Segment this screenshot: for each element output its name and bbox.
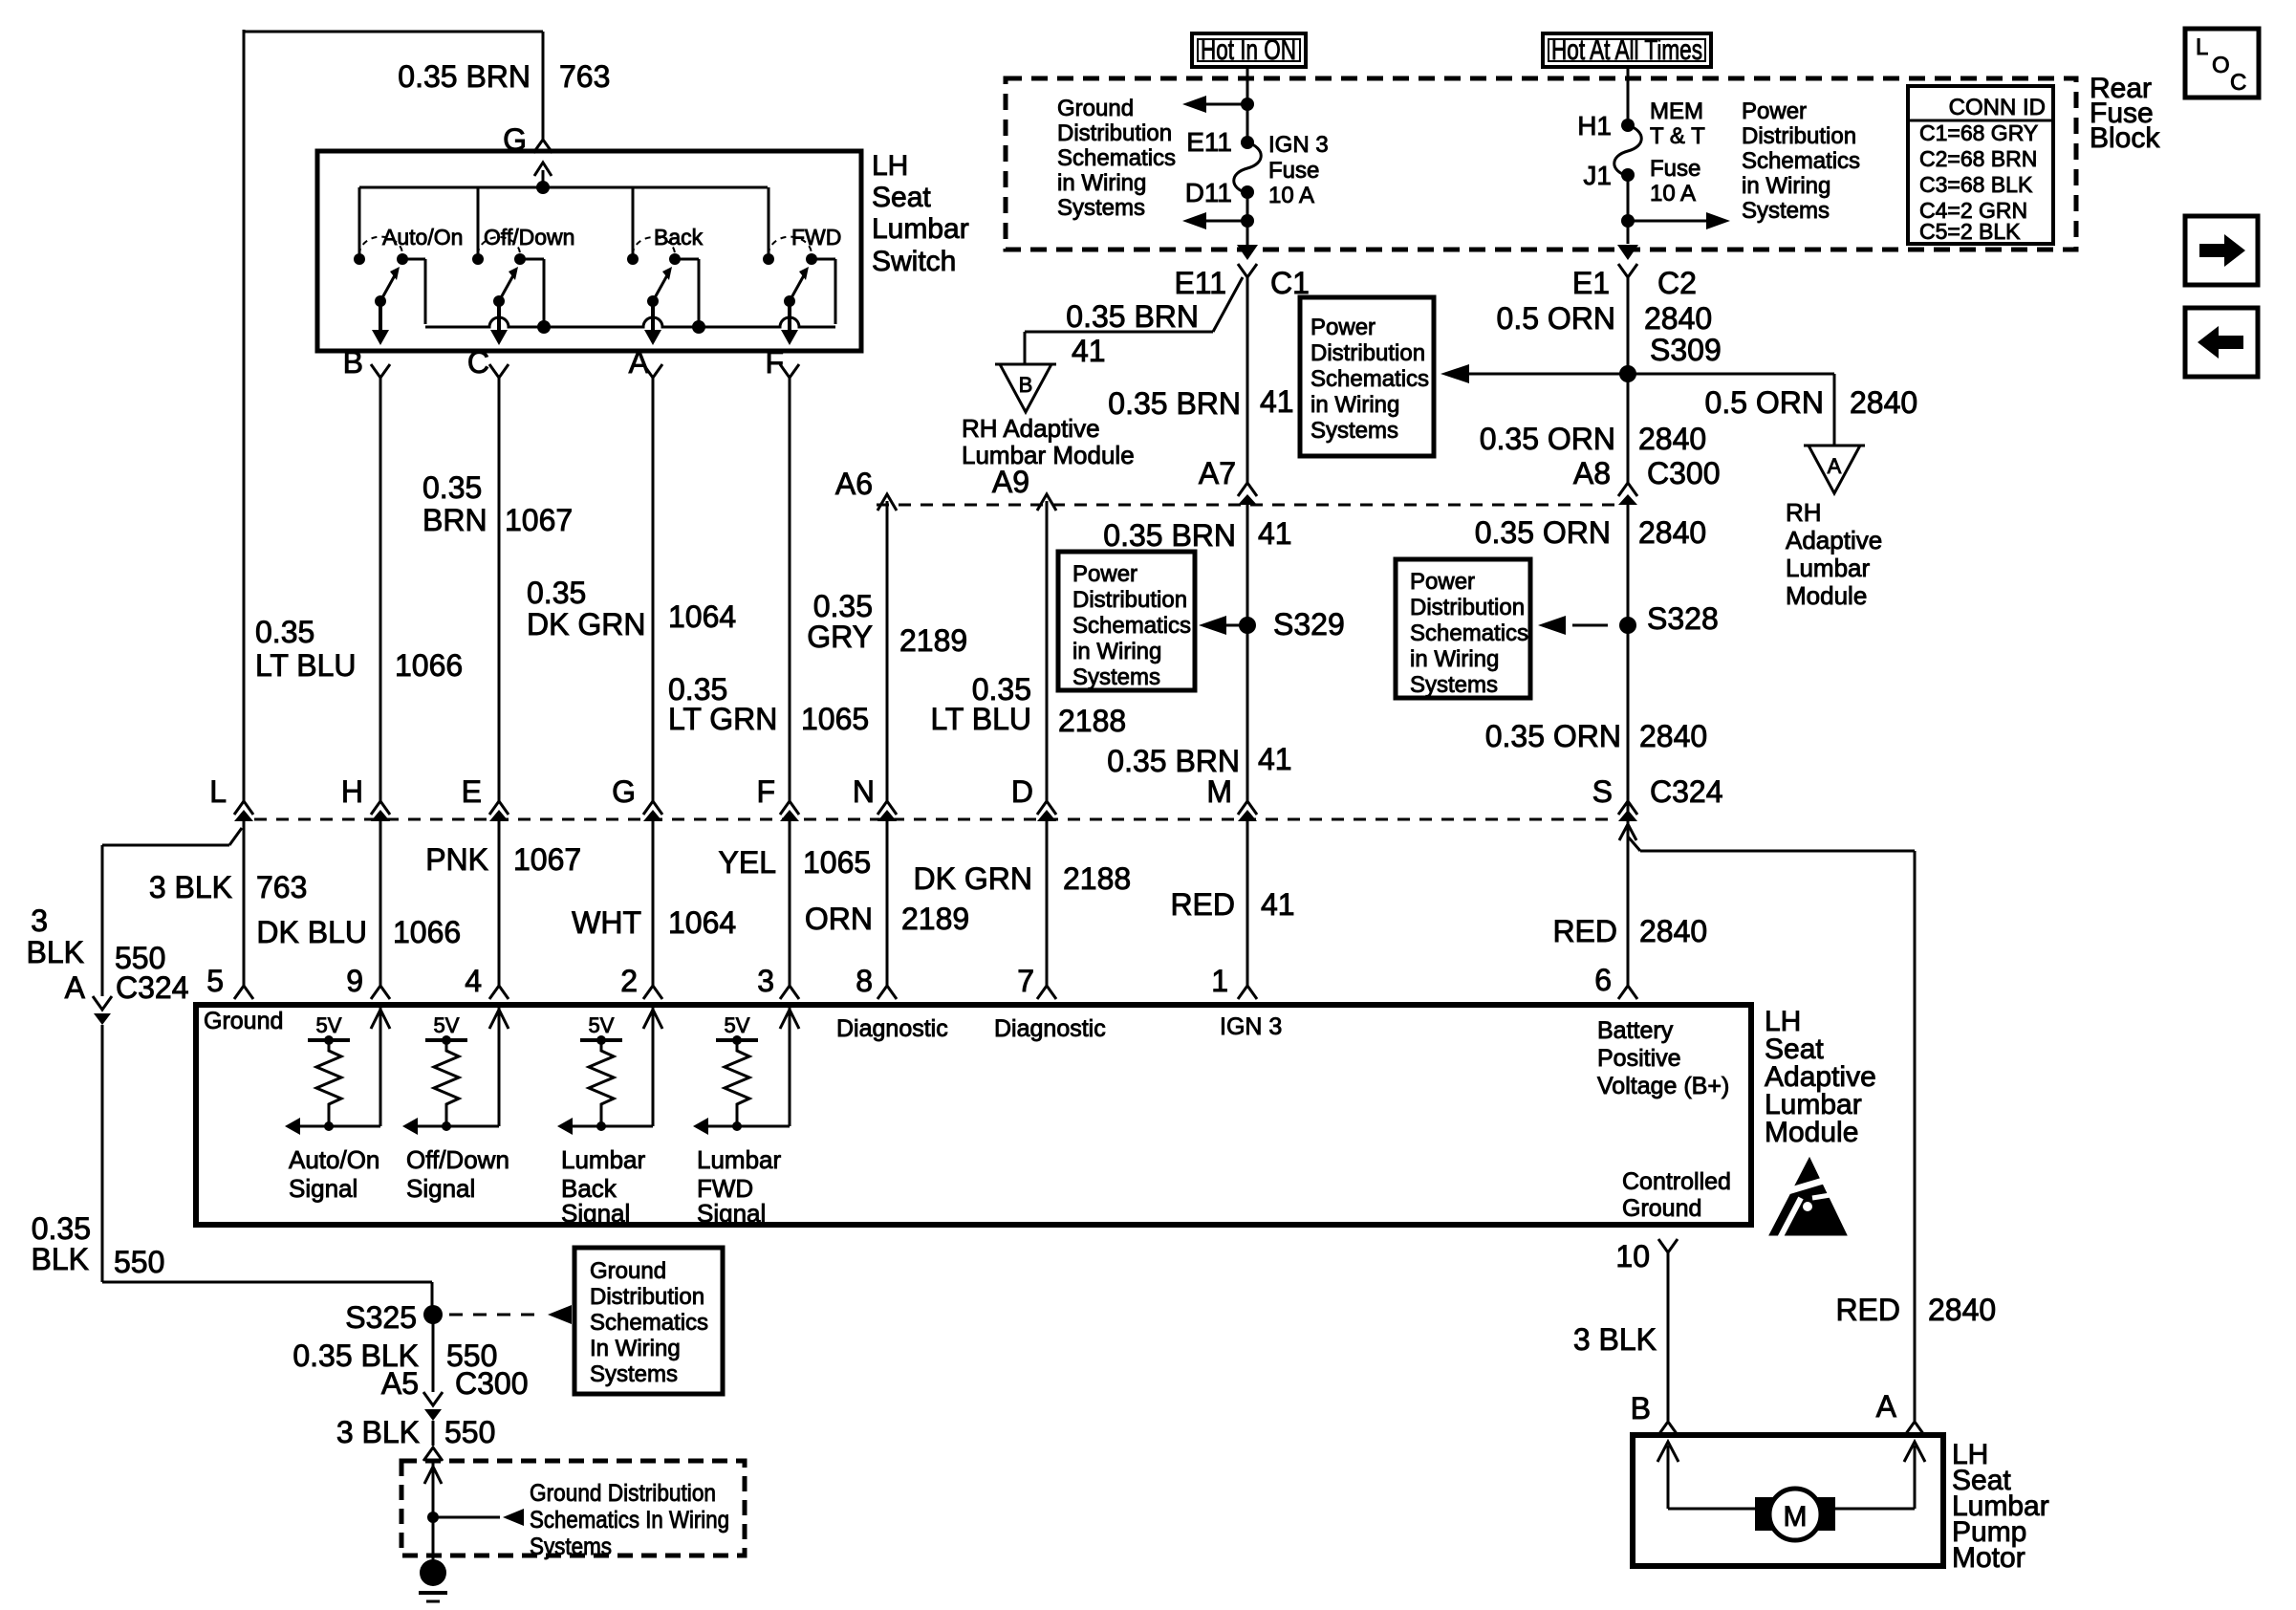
label Diagnostic (pin 8) (836, 1015, 948, 1042)
connector A8 C300 (1573, 456, 1721, 505)
wire 0.35 LT BLU 2188 (A9 to D) (1046, 501, 1049, 801)
fuse IGN 3 Fuse 10 A (1185, 127, 1329, 208)
wire 3 BLK (pin 10 to motor B) (1667, 1252, 1670, 1421)
label 3 BLK 550 (336, 1415, 496, 1449)
wire 3 BLK 763 (L to pin 5) (234, 821, 253, 999)
svg-text:D: D (1011, 774, 1033, 809)
svg-text:550: 550 (444, 1415, 495, 1449)
label 0.35 LT GRN 1065 (668, 672, 869, 736)
svg-text:LT BLU: LT BLU (930, 702, 1031, 736)
wire G internal feed arrow (534, 163, 552, 194)
svg-text:Auto/On: Auto/On (382, 225, 463, 250)
svg-text:C1=68 GRY: C1=68 GRY (1919, 120, 2038, 145)
svg-text:A5: A5 (381, 1366, 419, 1401)
svg-text:A: A (1828, 454, 1842, 478)
svg-text:Systems: Systems (530, 1534, 612, 1560)
switch Auto/On (354, 187, 463, 345)
fuse MEM T&T Fuse 10 A (1577, 98, 1705, 207)
svg-text:BLK: BLK (32, 1242, 89, 1276)
svg-text:Power: Power (1410, 569, 1475, 595)
svg-text:A: A (1876, 1389, 1897, 1424)
svg-text:Distribution: Distribution (1310, 340, 1425, 366)
symbol LOC box (2185, 29, 2259, 98)
box Power Distribution Schematics (S309) (1300, 297, 1434, 456)
svg-text:1064: 1064 (668, 599, 736, 634)
label ORN 2189 (805, 902, 969, 936)
svg-text:N: N (853, 774, 875, 809)
label pin 2 (620, 964, 638, 998)
label 0.35 ORN 2840 (above C300) (1480, 422, 1706, 456)
connector pin L at C324 line (209, 774, 253, 821)
svg-text:Off/Down: Off/Down (484, 225, 574, 250)
module pin A9 (992, 465, 1056, 511)
wire S to pin 6 (1618, 821, 1637, 999)
svg-text:A6: A6 (835, 467, 873, 501)
module pin A6 (835, 467, 897, 511)
svg-text:Fuse: Fuse (1268, 158, 1319, 184)
wire 0.35 BRN 41 (C1 to module pin 1) (1246, 277, 1249, 801)
wire motor internal loop (1657, 1442, 1925, 1509)
svg-text:0.35 ORN: 0.35 ORN (1480, 422, 1615, 456)
svg-text:2840: 2840 (1638, 422, 1706, 456)
svg-text:Motor: Motor (1952, 1542, 2025, 1574)
switch FWD (763, 187, 841, 345)
svg-text:A8: A8 (1573, 456, 1611, 490)
svg-text:BLK: BLK (27, 935, 84, 969)
svg-text:DK GRN: DK GRN (527, 607, 645, 642)
svg-text:0.35 BRN: 0.35 BRN (1103, 518, 1236, 553)
label 0.35 GRY 2189 (807, 589, 967, 658)
box Ground Distribution Schematics (S325) (574, 1248, 723, 1394)
svg-text:Signal: Signal (406, 1174, 475, 1203)
svg-text:Signal: Signal (289, 1174, 357, 1203)
svg-text:1066: 1066 (393, 915, 461, 949)
svg-text:IGN 3: IGN 3 (1268, 132, 1329, 158)
connector pin A of switch (629, 345, 662, 380)
svg-text:10: 10 (1615, 1239, 1650, 1273)
label 0.35 LT BLU 1066 (255, 615, 463, 683)
label Hot In ON (1192, 33, 1306, 67)
svg-text:Schematics: Schematics (1742, 148, 1860, 174)
connector A5 C300 (381, 1366, 529, 1421)
svg-text:Schematics In Wiring: Schematics In Wiring (530, 1507, 729, 1534)
label 0.35 BRN 1067 (422, 470, 573, 537)
connector A7 (1199, 456, 1257, 505)
wire WHT 1064 (A to G) (652, 377, 655, 801)
wire fuse output to C2 (1617, 175, 1730, 260)
svg-text:Lumbar: Lumbar (872, 213, 969, 245)
svg-text:Controlled: Controlled (1622, 1168, 1731, 1195)
label 3 BLK (motor) (1573, 1322, 1657, 1357)
svg-text:IGN 3: IGN 3 (1220, 1013, 1282, 1040)
svg-text:Schematics: Schematics (1310, 366, 1429, 392)
svg-text:RH Adaptive: RH Adaptive (962, 414, 1100, 443)
label pin 7 (1017, 964, 1034, 998)
svg-text:0.5 ORN: 0.5 ORN (1497, 301, 1615, 336)
wire 0.35 BLK 550 (S325 to A5) (432, 1323, 435, 1392)
svg-text:In Wiring: In Wiring (590, 1336, 681, 1361)
svg-text:E: E (462, 774, 482, 809)
svg-text:E11: E11 (1186, 127, 1232, 157)
svg-text:Power: Power (1310, 315, 1375, 340)
svg-text:Lumbar: Lumbar (561, 1145, 645, 1174)
svg-text:0.35: 0.35 (32, 1211, 91, 1246)
wire 0.35 BLK 550 (to S325) (102, 1025, 432, 1306)
label 0.35 ORN 2840 (below C300) (1475, 515, 1706, 550)
svg-text:B: B (1019, 373, 1033, 397)
wire F to pin 3 (780, 821, 799, 999)
svg-text:0.35: 0.35 (527, 576, 586, 610)
connector pin B of switch (343, 345, 390, 380)
svg-text:WHT: WHT (572, 905, 641, 940)
svg-text:1064: 1064 (668, 905, 736, 940)
svg-text:4: 4 (465, 964, 482, 998)
svg-text:Systems: Systems (590, 1361, 678, 1387)
label Controlled Ground (pin 10) (1622, 1168, 1731, 1222)
svg-text:2840: 2840 (1850, 385, 1917, 420)
svg-text:S: S (1592, 774, 1613, 809)
connector motor pin B (1631, 1391, 1678, 1435)
component box LH Seat Lumbar Switch (317, 150, 969, 351)
connector pin C of switch (467, 345, 509, 380)
wire H to pin 9 (371, 821, 390, 999)
module connector dashed line C2xx (254, 818, 1617, 821)
svg-text:Signal: Signal (561, 1199, 630, 1228)
label Diagnostic (pin 7) (994, 1015, 1106, 1042)
svg-text:Diagnostic: Diagnostic (994, 1015, 1106, 1042)
connector pin F at C324 line (756, 774, 799, 821)
svg-text:A: A (65, 970, 86, 1005)
resistor 5V pull-up at pin 398 (285, 1008, 390, 1203)
wire DK BLU 1066 (B to H) (379, 377, 382, 801)
connector pin E at C324 line (462, 774, 509, 821)
label 0.35 BRN 763 (398, 59, 610, 94)
svg-text:RED: RED (1835, 1293, 1900, 1327)
svg-text:2: 2 (620, 964, 638, 998)
svg-text:PNK: PNK (425, 842, 488, 877)
svg-text:763: 763 (256, 870, 307, 904)
connector A C324 (ground lead) (27, 903, 189, 1025)
box Power Distribution Schematics (S329) (1058, 552, 1195, 690)
svg-text:Positive: Positive (1597, 1045, 1681, 1072)
svg-text:LT GRN: LT GRN (668, 702, 777, 736)
svg-text:Distribution: Distribution (1072, 587, 1187, 613)
svg-text:41: 41 (1072, 334, 1106, 368)
svg-text:1065: 1065 (801, 702, 869, 736)
wire internal lower bus with hops (425, 317, 835, 334)
svg-text:1065: 1065 (803, 845, 871, 880)
svg-text:1067: 1067 (513, 842, 581, 877)
box Ground Distribution Schematics In Wiring Systems (dashed) (401, 1461, 745, 1560)
svg-text:41: 41 (1260, 384, 1294, 419)
svg-text:7: 7 (1017, 964, 1034, 998)
svg-text:Distribution: Distribution (1057, 120, 1172, 146)
splice S328 (1538, 601, 1719, 636)
svg-text:E11: E11 (1174, 266, 1226, 300)
svg-text:LT BLU: LT BLU (255, 648, 357, 683)
label Power Distribution Schematics in Wiring Systems (fuse block) (1742, 98, 1860, 224)
svg-text:3 BLK: 3 BLK (149, 870, 232, 904)
wire RED 2840 branch to pump motor (1628, 837, 1915, 1421)
label 0.35 DK GRN 1064 (527, 576, 736, 642)
svg-text:F: F (765, 345, 784, 380)
connector pin F of switch (765, 345, 799, 380)
svg-text:8: 8 (856, 964, 873, 998)
svg-text:C2: C2 (1657, 266, 1697, 300)
splice S329 (1199, 607, 1345, 642)
label Ground Distribution Schematics in Wiring Systems (fuse block) (1057, 96, 1176, 221)
connector motor pin A (1876, 1389, 1924, 1435)
label C324 (at pin S) (1650, 774, 1723, 809)
switch Back (627, 187, 704, 345)
svg-text:Power: Power (1072, 561, 1137, 587)
svg-text:Schematics: Schematics (1072, 613, 1191, 639)
svg-text:H: H (341, 774, 363, 809)
component box Rear Fuse Block (dashed) (1006, 73, 2160, 250)
svg-text:RED: RED (1170, 887, 1235, 922)
svg-text:Module: Module (1765, 1117, 1858, 1148)
wire 0.5 ORN 2840 branch to RH module (1628, 374, 1834, 446)
splice S309 (1440, 333, 1722, 383)
svg-text:T & T: T & T (1650, 123, 1705, 149)
switch Off/Down (472, 187, 574, 345)
wire PNK 1067 (C to E) (498, 377, 501, 801)
wire 0.35 BRN 41 branch to RH Adaptive Lumbar Module (1025, 277, 1243, 364)
label 0.35 BRN 41 (above A7) (1108, 384, 1293, 421)
svg-text:MEM: MEM (1650, 98, 1703, 124)
svg-text:C324: C324 (1650, 774, 1723, 809)
svg-text:Adaptive: Adaptive (1786, 526, 1882, 555)
svg-text:0.5 ORN: 0.5 ORN (1705, 385, 1824, 420)
svg-text:2840: 2840 (1639, 719, 1707, 753)
svg-text:C: C (2230, 70, 2246, 96)
svg-text:F: F (756, 774, 775, 809)
wire D to pin 7 (1037, 821, 1056, 999)
svg-text:3 BLK: 3 BLK (1573, 1322, 1657, 1357)
svg-text:Lumbar Module: Lumbar Module (962, 441, 1135, 469)
svg-text:41: 41 (1261, 887, 1295, 922)
svg-text:C3=68 BLK: C3=68 BLK (1919, 172, 2033, 197)
svg-text:1: 1 (1211, 964, 1228, 998)
svg-text:41: 41 (1258, 742, 1292, 776)
svg-text:A9: A9 (992, 465, 1029, 499)
svg-text:10 A: 10 A (1650, 181, 1696, 207)
resistor 5V pull-up at pin 683 (557, 1008, 662, 1228)
ground G305 (419, 1559, 447, 1601)
svg-text:9: 9 (346, 964, 363, 998)
connector pin N at C324 line (853, 774, 897, 821)
svg-text:Systems: Systems (1410, 672, 1498, 698)
svg-text:H1: H1 (1577, 111, 1612, 141)
svg-text:0.35: 0.35 (422, 470, 482, 505)
label IGN 3 (pin 1) (1220, 1013, 1282, 1040)
wire YEL 1065 (F to F) (789, 377, 791, 801)
svg-text:M: M (1784, 1501, 1808, 1533)
svg-text:GRY: GRY (807, 620, 873, 654)
svg-text:5: 5 (206, 964, 224, 998)
svg-text:in Wiring: in Wiring (1057, 170, 1146, 196)
svg-text:Block: Block (2090, 122, 2160, 154)
svg-text:E1: E1 (1572, 266, 1610, 300)
svg-text:A7: A7 (1199, 456, 1236, 490)
label pin 1 (1211, 964, 1228, 998)
connector E11 C1 (1174, 264, 1309, 300)
label pin 3 (757, 964, 774, 998)
label pin 4 (465, 964, 482, 998)
svg-text:0.35: 0.35 (255, 615, 314, 649)
label pin 5 (206, 964, 224, 998)
svg-text:6: 6 (1594, 963, 1612, 997)
svg-text:DK BLU: DK BLU (256, 915, 367, 949)
svg-text:Off/Down: Off/Down (406, 1145, 509, 1174)
off-page reference B (RH Adaptive Lumbar Module) (962, 364, 1135, 469)
svg-text:C2=68 BRN: C2=68 BRN (1919, 146, 2037, 171)
svg-text:B: B (343, 345, 363, 380)
svg-text:A: A (629, 345, 650, 380)
svg-text:Schematics: Schematics (1410, 620, 1528, 646)
svg-text:Ground: Ground (1622, 1195, 1701, 1222)
motor M1 (pump motor) (1755, 1489, 1835, 1540)
wire Hot In ON feed (1241, 67, 1254, 140)
svg-text:Systems: Systems (1072, 664, 1160, 690)
svg-text:J1: J1 (1583, 161, 1612, 190)
svg-text:G: G (612, 774, 636, 809)
connector pin M at C324 line (1206, 774, 1257, 821)
svg-text:0.35 BRN: 0.35 BRN (1107, 744, 1240, 778)
svg-text:C300: C300 (455, 1366, 529, 1401)
connector pin H at C324 line (341, 774, 390, 821)
svg-text:Lumbar: Lumbar (1786, 554, 1870, 582)
component box LH Seat Lumbar Pump Motor (1633, 1435, 2049, 1574)
wire E to pin 4 (489, 821, 509, 999)
svg-text:O: O (2212, 53, 2230, 78)
svg-text:L: L (209, 774, 227, 809)
svg-text:5V: 5V (434, 1013, 460, 1037)
svg-text:2189: 2189 (899, 623, 967, 658)
svg-text:5V: 5V (725, 1013, 750, 1037)
svg-text:1067: 1067 (505, 503, 573, 537)
symbol page-forward arrow box (2185, 216, 2258, 285)
arrow to ground distribution (upper) (1182, 96, 1247, 113)
svg-text:CONN ID: CONN ID (1949, 95, 2046, 120)
svg-text:S328: S328 (1647, 601, 1719, 636)
svg-text:Lumbar: Lumbar (697, 1145, 781, 1174)
label 0.5 ORN 2840 (top) (1497, 301, 1713, 336)
label RED 41 (1170, 887, 1294, 922)
resistor 5V pull-up at pin 826 (693, 1008, 799, 1228)
svg-text:Diagnostic: Diagnostic (836, 1015, 948, 1042)
svg-text:RH: RH (1786, 498, 1822, 527)
svg-text:Schematics: Schematics (1057, 145, 1176, 171)
svg-text:0.35: 0.35 (813, 589, 873, 623)
svg-text:3 BLK: 3 BLK (336, 1415, 420, 1449)
component box LH Seat Adaptive Lumbar Module (196, 1005, 1876, 1225)
svg-text:Seat: Seat (872, 182, 931, 213)
wire N to pin 8 (877, 821, 897, 999)
label 0.35 BRN 41 (above M) (1107, 742, 1291, 778)
svg-text:Hot In ON: Hot In ON (1201, 34, 1296, 66)
splice S325 (345, 1300, 572, 1335)
svg-text:Distribution: Distribution (1410, 595, 1525, 620)
svg-text:FWD: FWD (791, 225, 841, 250)
label 0.35 BRN 41 (below A7) (1103, 516, 1291, 553)
svg-text:0.35 BRN: 0.35 BRN (1066, 299, 1199, 334)
connector pin S at C324 line (1592, 774, 1637, 821)
svg-text:Battery: Battery (1597, 1017, 1674, 1044)
svg-text:Signal: Signal (697, 1199, 766, 1228)
svg-text:BRN: BRN (422, 503, 487, 537)
svg-text:Ground: Ground (204, 1008, 283, 1034)
svg-text:3: 3 (757, 964, 774, 998)
connector pin G of switch (503, 122, 552, 157)
svg-text:Switch: Switch (872, 246, 956, 277)
svg-text:in Wiring: in Wiring (1410, 646, 1499, 672)
wire 0.5 ORN 2840 (C2 to module pin 6) (1627, 277, 1630, 837)
connector pin 10 (1615, 1239, 1678, 1273)
svg-text:Voltage (B+): Voltage (B+) (1597, 1073, 1729, 1099)
connector pin D at C324 line (1011, 774, 1056, 821)
svg-text:2840: 2840 (1639, 914, 1707, 948)
wire fuse output to C1 (1182, 192, 1258, 260)
connector pin G at C324 line (612, 774, 662, 821)
svg-text:LH: LH (872, 150, 908, 182)
svg-text:41: 41 (1258, 516, 1292, 551)
svg-text:L: L (2196, 34, 2208, 60)
svg-text:C: C (467, 345, 489, 380)
label Battery Positive Voltage (pin 6) (1597, 1017, 1729, 1099)
svg-text:0.35 BRN: 0.35 BRN (1108, 386, 1241, 421)
label pin 9 (346, 964, 363, 998)
module boundary dashed line (upper) (877, 504, 1616, 507)
label Ground (module pin 5) (204, 1008, 283, 1034)
svg-text:RED: RED (1552, 914, 1617, 948)
svg-text:Auto/On: Auto/On (289, 1145, 379, 1174)
svg-text:YEL: YEL (719, 845, 776, 880)
label 0.35 LT BLU 2188 (930, 672, 1126, 738)
label Hot At All Times (1543, 33, 1711, 67)
svg-text:2840: 2840 (1644, 301, 1712, 336)
symbol ESD sensitive device (1769, 1158, 1849, 1238)
svg-text:2188: 2188 (1058, 704, 1126, 738)
svg-text:Ground: Ground (1057, 96, 1134, 121)
svg-text:1066: 1066 (395, 648, 463, 683)
svg-text:Systems: Systems (1742, 198, 1830, 224)
label pin 8 (856, 964, 873, 998)
label 0.5 ORN 2840 (branch) (1705, 385, 1918, 420)
label DK GRN 2188 (914, 861, 1132, 896)
svg-text:in Wiring: in Wiring (1072, 639, 1161, 664)
wire 0.35 GRY 2189 (A6 to N) (886, 501, 889, 801)
svg-text:Systems: Systems (1057, 195, 1145, 221)
svg-text:in Wiring: in Wiring (1310, 392, 1399, 418)
label 0.35 BLK 550 (A5) (292, 1338, 497, 1373)
svg-text:5V: 5V (589, 1013, 615, 1037)
svg-text:Power: Power (1742, 98, 1807, 124)
wire branch to C324 ground (jog) (102, 828, 242, 996)
svg-text:C5=2 BLK: C5=2 BLK (1919, 219, 2021, 244)
svg-text:2188: 2188 (1063, 861, 1131, 896)
wire 3 BLK 550 (A5 to ground) (423, 1421, 443, 1561)
symbol page-back arrow box (2185, 308, 2258, 377)
svg-text:Schematics: Schematics (590, 1310, 708, 1336)
label 0.35 BRN 41 (branch) (1066, 299, 1199, 368)
off-page reference A (RH Adaptive Lumbar Module) (1786, 446, 1882, 610)
svg-text:B: B (1631, 1391, 1651, 1425)
svg-text:763: 763 (559, 59, 610, 94)
wire M to pin 1 (1238, 821, 1257, 999)
svg-text:Ground: Ground (590, 1258, 666, 1284)
svg-text:2840: 2840 (1928, 1293, 1996, 1327)
